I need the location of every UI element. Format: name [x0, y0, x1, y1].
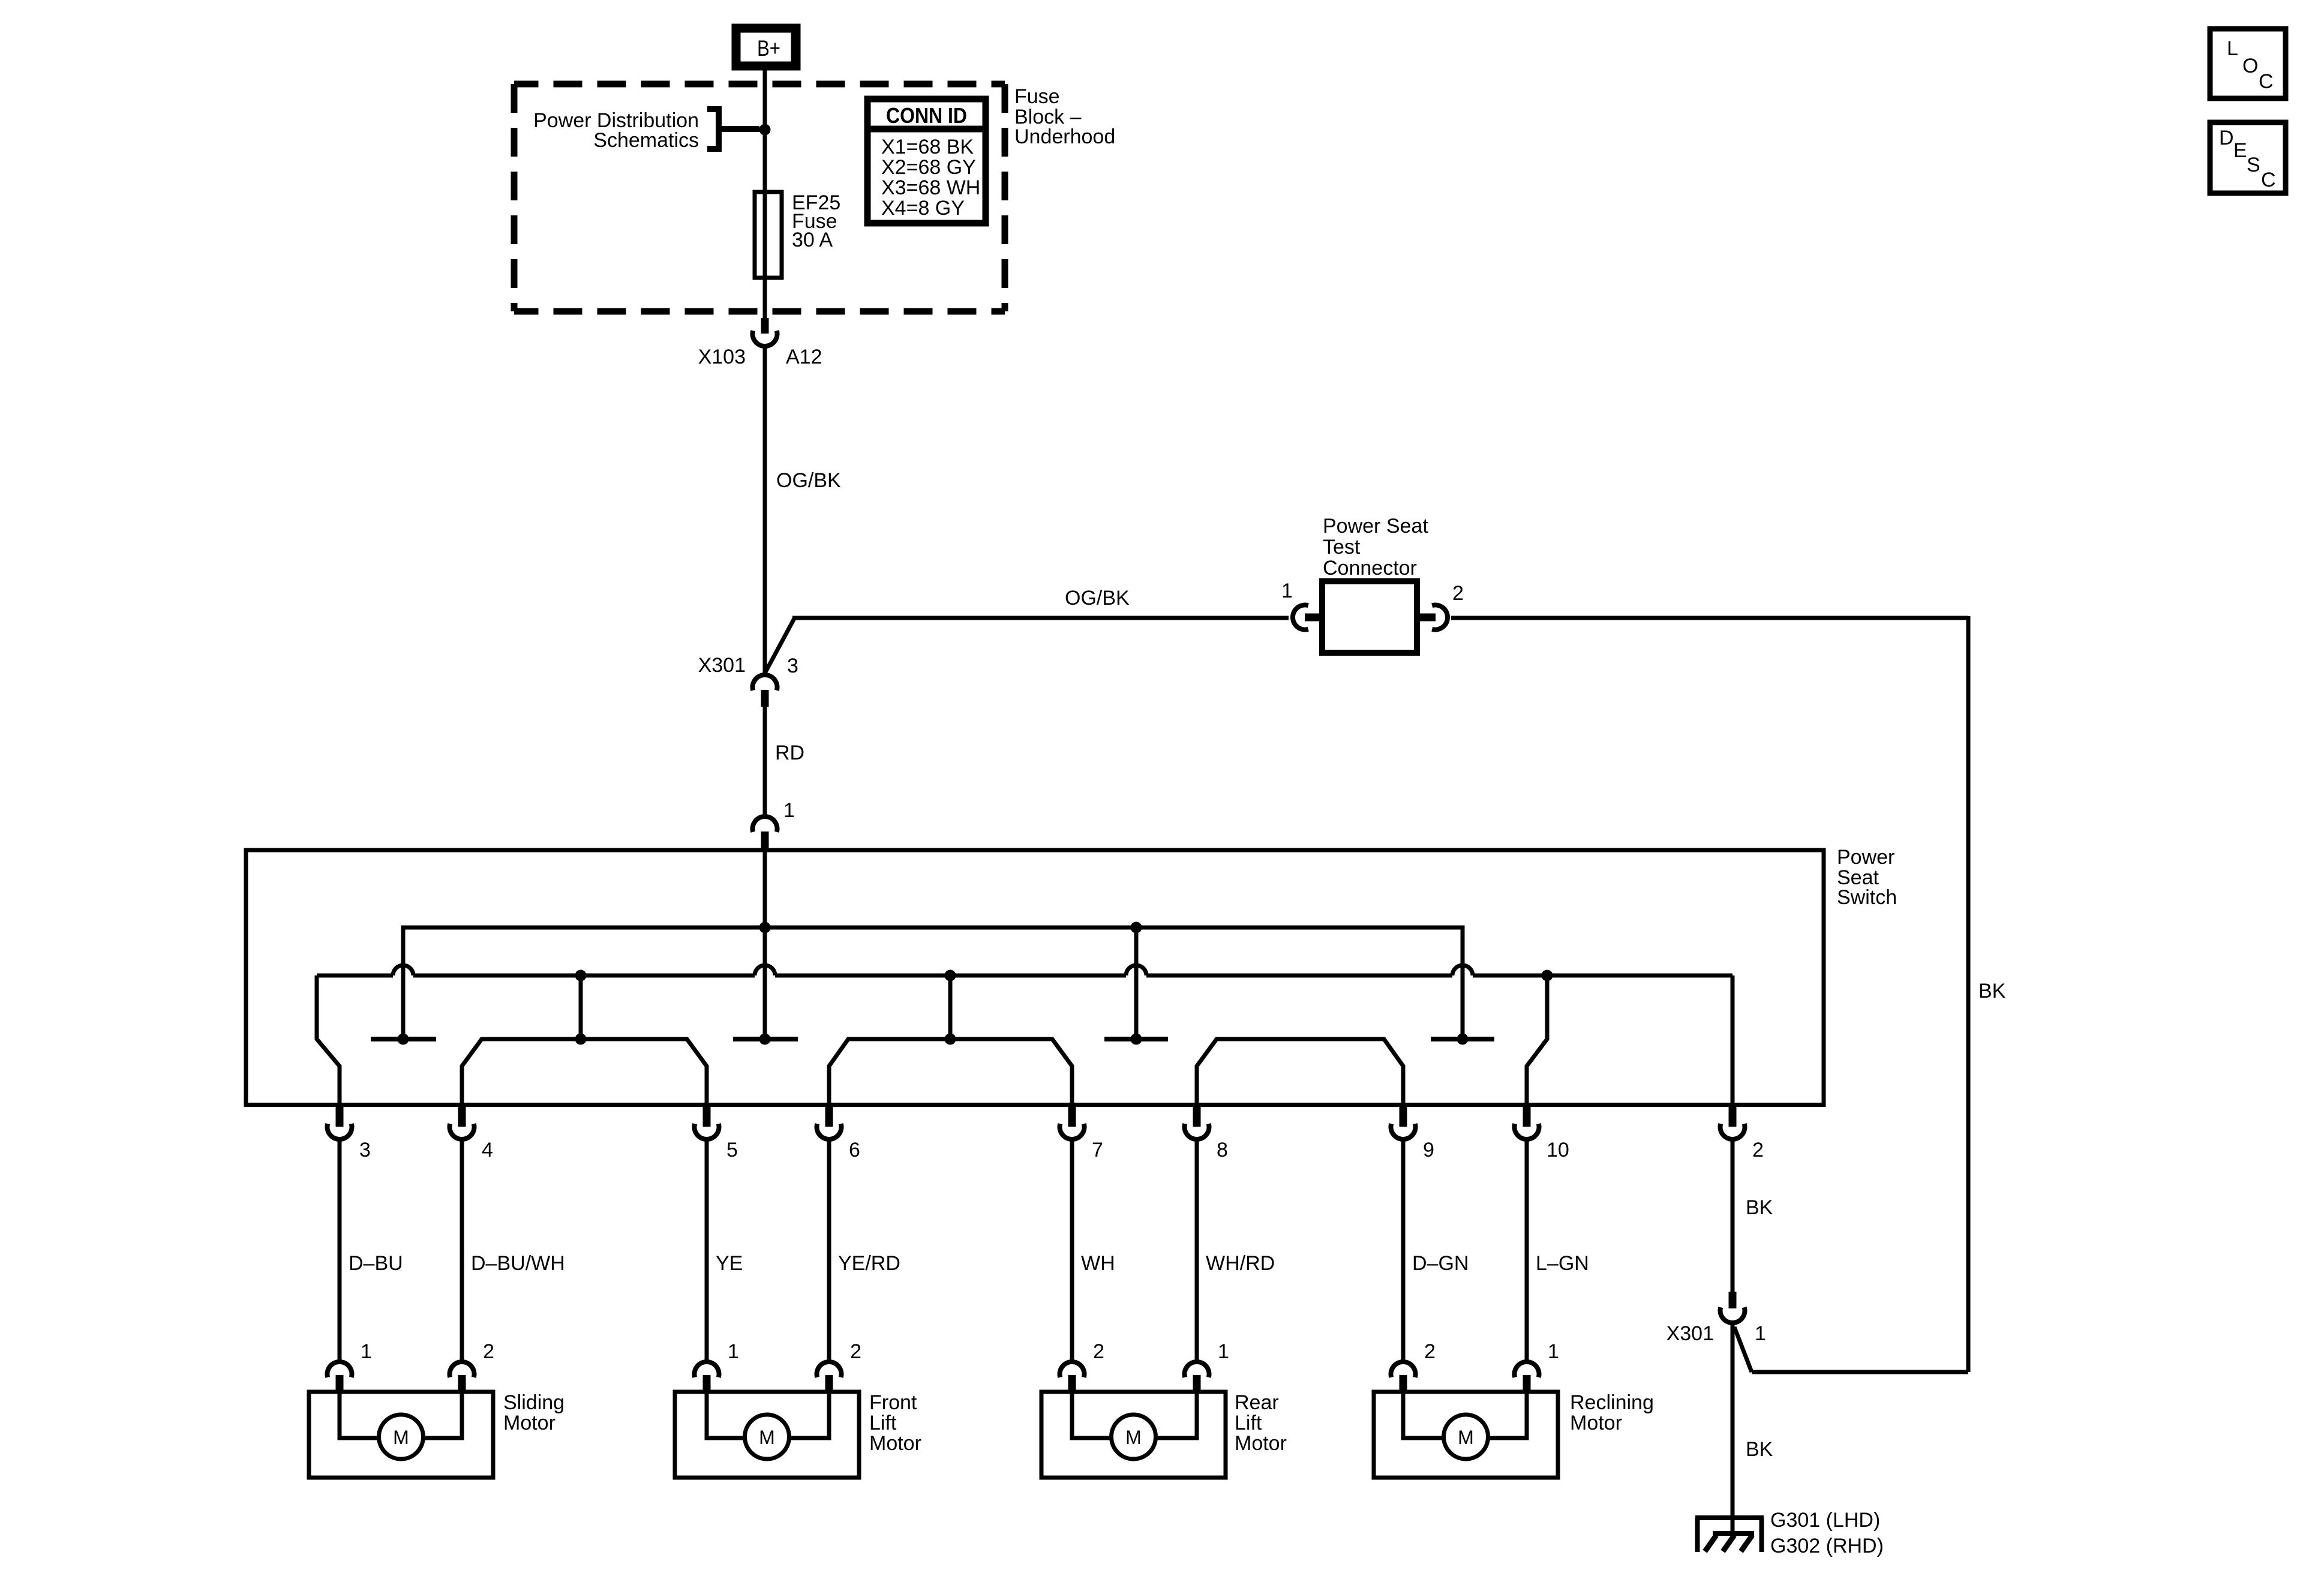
label Motor [869, 1432, 921, 1455]
svg-text:BK: BK [1746, 1438, 1773, 1461]
contact T4 bar [1431, 1034, 1494, 1045]
svg-text:8: 8 [1217, 1139, 1228, 1161]
motor internal wires [1403, 1394, 1527, 1438]
svg-text:1: 1 [1218, 1340, 1229, 1363]
connector switch pin 9 [1391, 1104, 1416, 1139]
label Motor [1570, 1412, 1622, 1434]
svg-text:1: 1 [1548, 1340, 1559, 1363]
label motor pin 1 [1218, 1340, 1229, 1363]
motor symbol M [1444, 1415, 1488, 1459]
junction dot bus B x W1 riser [575, 970, 587, 981]
svg-text:3: 3 [787, 655, 798, 677]
label OG/BK vertical wire [776, 469, 841, 492]
motor box [1374, 1392, 1558, 1478]
connector X301 pin 1 [1721, 1292, 1745, 1323]
fuse block dashed outline (Fuse Block - Underhood) [514, 84, 1005, 311]
svg-text:Power: Power [1837, 846, 1894, 869]
label switch pin 8 [1217, 1139, 1228, 1161]
bus A horizontal (fixed contact bus) [403, 926, 1463, 1040]
connector switch pin 1 (dome) [753, 816, 777, 851]
wire D–GN from switch to motor [1401, 1139, 1406, 1362]
svg-text:D: D [2219, 127, 2234, 149]
label A12 [786, 346, 822, 368]
svg-text:D–BU/WH: D–BU/WH [471, 1252, 565, 1275]
wire WH from switch to motor [1070, 1139, 1074, 1362]
wire BK switch pin 2 down [1731, 1139, 1735, 1293]
label CONN ID [886, 103, 967, 128]
label Rear [1235, 1391, 1279, 1414]
motor internal wires [1072, 1394, 1197, 1438]
svg-text:OG/BK: OG/BK [1065, 587, 1130, 610]
svg-text:Test: Test [1323, 536, 1361, 559]
wire WH/RD from switch to motor [1195, 1139, 1199, 1362]
label X3=68 WH [881, 176, 980, 199]
svg-text:YE/RD: YE/RD [838, 1252, 900, 1275]
wire BK X301 to ground [1731, 1322, 1735, 1532]
label switch pin 5 [726, 1139, 738, 1161]
svg-text:C: C [2259, 70, 2274, 93]
wire BK from test connector pin 2 to right side [1451, 616, 1968, 620]
svg-text:1: 1 [728, 1340, 739, 1363]
svg-text:3: 3 [359, 1139, 371, 1161]
svg-text:2: 2 [1424, 1340, 1436, 1363]
wire BK right vertical [1966, 616, 1971, 1372]
connector switch pin 5 [695, 1104, 719, 1139]
label motor pin 2 [1093, 1340, 1104, 1363]
connector motor pin 2 (dome) [450, 1362, 475, 1394]
label G301 (LHD) [1770, 1509, 1880, 1532]
svg-text:Motor: Motor [1570, 1412, 1622, 1434]
svg-text:E: E [2233, 139, 2247, 162]
svg-text:Front: Front [869, 1391, 917, 1414]
svg-text:Motor: Motor [503, 1412, 556, 1434]
label OG/BK horizontal wire [1065, 587, 1130, 610]
label pin 3 X301 [787, 655, 798, 677]
svg-text:D–BU: D–BU [349, 1252, 403, 1275]
svg-text:Fuse: Fuse [1014, 85, 1060, 108]
svg-text:C: C [2261, 169, 2276, 191]
label switch pin 10 [1547, 1139, 1569, 1161]
svg-text:B+: B+ [757, 36, 780, 61]
svg-text:2: 2 [1752, 1139, 1764, 1161]
label Fuse Block - Underhood [1014, 85, 1115, 148]
svg-text:X4=8 GY: X4=8 GY [881, 197, 965, 220]
label motor pin 1 [1548, 1340, 1559, 1363]
label switch pin 1 [783, 799, 795, 822]
motor box [675, 1392, 859, 1478]
label G302 (RHD) [1770, 1535, 1884, 1557]
connector test pin 1 (cup) [1293, 605, 1323, 630]
wire B+ to fuse (inside fuse block) [763, 70, 767, 319]
svg-text:6: 6 [849, 1139, 860, 1161]
label switch pin 9 [1423, 1139, 1434, 1161]
connector switch pin 4 [450, 1104, 475, 1139]
motor symbol M [745, 1415, 789, 1459]
label X4=8 GY [881, 197, 965, 220]
label WH/RD [1206, 1252, 1275, 1275]
svg-text:Underhood: Underhood [1014, 125, 1115, 148]
svg-text:WH/RD: WH/RD [1206, 1252, 1275, 1275]
label BK pin2 wire [1746, 1196, 1773, 1219]
fuse EF25 30A [755, 192, 782, 278]
label X103 [698, 346, 746, 368]
svg-text:M: M [759, 1427, 775, 1448]
svg-text:Rear: Rear [1235, 1391, 1279, 1414]
svg-text:M: M [393, 1427, 409, 1448]
label Power Seat Switch [1837, 846, 1897, 909]
connector motor pin 2 (dome) [1060, 1362, 1085, 1394]
bus B horizontal (wiper common bus) [317, 965, 1733, 975]
svg-text:BK: BK [1746, 1196, 1773, 1219]
label D–GN [1412, 1252, 1469, 1275]
junction dot bus A x T3 riser [1131, 922, 1142, 933]
label Motor [503, 1412, 556, 1434]
wiper bar W1 (pins 4-5) [462, 975, 707, 1107]
label YE [716, 1252, 743, 1275]
svg-text:S: S [2247, 154, 2260, 176]
junction dot feed x bus A [759, 922, 771, 933]
junction dot power distribution tap [759, 124, 771, 136]
label X301 bottom [1667, 1322, 1714, 1345]
label Power Seat Test Connector [1323, 515, 1428, 580]
junction dot bus B x pin10 wiper [1542, 970, 1553, 981]
label switch pin 2 [1752, 1139, 1764, 1161]
contact T1 bar [371, 1034, 436, 1045]
svg-text:X3=68 WH: X3=68 WH [881, 176, 980, 199]
label switch pin 6 [849, 1139, 860, 1161]
label D–BU [349, 1252, 403, 1275]
label Motor [1235, 1432, 1287, 1455]
svg-text:7: 7 [1092, 1139, 1103, 1161]
junction dot bus B x W2 riser [945, 970, 956, 981]
label switch pin 7 [1092, 1139, 1103, 1161]
svg-text:WH: WH [1081, 1252, 1115, 1275]
connector switch pin 6 [816, 1104, 841, 1139]
motor internal wires [340, 1394, 462, 1438]
connector motor pin 1 (dome) [695, 1362, 719, 1394]
connector switch pin 10 [1514, 1104, 1539, 1139]
connector switch pin 8 [1185, 1104, 1209, 1139]
bus A riser to T3 [1134, 927, 1139, 1039]
svg-text:Motor: Motor [869, 1432, 921, 1455]
svg-text:YE: YE [716, 1252, 743, 1275]
svg-text:4: 4 [482, 1139, 493, 1161]
label pin 1 X301 [1755, 1322, 1766, 1345]
label Lift [1235, 1412, 1262, 1434]
svg-text:Schematics: Schematics [593, 129, 699, 152]
label motor pin 1 [361, 1340, 372, 1363]
connector switch pin 2 [1721, 1104, 1745, 1139]
svg-text:L–GN: L–GN [1536, 1252, 1589, 1275]
svg-text:L: L [2227, 37, 2238, 60]
wiper pin 3 (from bus B left end) [317, 975, 340, 1107]
bracket from Power Distribution Schematics to node [707, 109, 759, 149]
wire branch diagonal to test connector [765, 619, 794, 673]
svg-text:M: M [1125, 1427, 1142, 1448]
wiper bar W3 (pins 8-9) [1197, 1039, 1403, 1107]
wire D–BU from switch to motor [338, 1139, 342, 1362]
wire L–GN from switch to motor [1525, 1139, 1529, 1362]
connector X103 pin A12 [753, 318, 777, 346]
label YE/RD [838, 1252, 900, 1275]
wire YE/RD from switch to motor [827, 1139, 831, 1362]
svg-text:D–GN: D–GN [1412, 1252, 1469, 1275]
svg-text:Connector: Connector [1323, 557, 1417, 580]
label Power Distribution Schematics [533, 109, 699, 152]
svg-text:2: 2 [1093, 1340, 1104, 1363]
label Sliding [503, 1391, 565, 1414]
label switch pin 4 [482, 1139, 493, 1161]
connector motor pin 1 (dome) [1185, 1362, 1209, 1394]
connector motor pin 1 (dome) [1514, 1362, 1539, 1394]
svg-text:Sliding: Sliding [503, 1391, 565, 1414]
wire D–BU/WH from switch to motor [460, 1139, 464, 1362]
label X1=68 BK [881, 136, 974, 158]
motor symbol M [379, 1415, 424, 1459]
svg-text:1: 1 [783, 799, 795, 822]
svg-text:10: 10 [1547, 1139, 1569, 1161]
power seat test connector box [1322, 581, 1417, 653]
label motor pin 2 [483, 1340, 494, 1363]
svg-text:Motor: Motor [1235, 1432, 1287, 1455]
label motor pin 2 [1424, 1340, 1436, 1363]
connector motor pin 1 (dome) [327, 1362, 352, 1394]
svg-text:2: 2 [483, 1340, 494, 1363]
svg-text:1: 1 [1281, 580, 1293, 602]
label Reclining [1570, 1391, 1654, 1414]
switch feed wire (pin 1 to contact T2) [763, 850, 767, 1039]
label X2=68 GY [881, 156, 976, 179]
label BK ground wire [1746, 1438, 1773, 1461]
connector switch pin 3 [327, 1104, 352, 1139]
label Lift [869, 1412, 897, 1434]
wiper pin 10 (from bus B) [1527, 975, 1547, 1107]
label motor pin 1 [728, 1340, 739, 1363]
contact T3 bar [1104, 1034, 1168, 1045]
connector test pin 2 (cup) [1418, 605, 1448, 630]
svg-text:X1=68 BK: X1=68 BK [881, 136, 974, 158]
svg-text:2: 2 [850, 1340, 861, 1363]
DESC reference box [2210, 122, 2286, 193]
motor symbol M [1112, 1415, 1156, 1459]
svg-text:1: 1 [1755, 1322, 1766, 1345]
svg-text:Power Seat: Power Seat [1323, 515, 1428, 538]
power seat switch box [246, 850, 1824, 1105]
svg-text:G302 (RHD): G302 (RHD) [1770, 1535, 1884, 1557]
svg-text:X301: X301 [1667, 1322, 1714, 1345]
svg-text:OG/BK: OG/BK [776, 469, 841, 492]
connector switch pin 7 [1060, 1104, 1085, 1139]
svg-text:Reclining: Reclining [1570, 1391, 1654, 1414]
label motor pin 2 [850, 1340, 861, 1363]
label switch pin 3 [359, 1139, 371, 1161]
LOC reference box [2210, 29, 2286, 98]
motor box [309, 1392, 493, 1478]
svg-text:O: O [2242, 55, 2258, 77]
ground symbol G301/G302 [1695, 1518, 1764, 1552]
svg-text:BK: BK [1978, 980, 2006, 1002]
wire OG/BK horizontal to test connector [792, 616, 1289, 620]
svg-text:X2=68 GY: X2=68 GY [881, 156, 976, 179]
label L–GN [1536, 1252, 1589, 1275]
wire bus B right end to pin 2 [1731, 975, 1735, 1107]
svg-text:Switch: Switch [1837, 886, 1897, 909]
label pin 1 test connector [1281, 580, 1293, 602]
CONN ID table box [867, 99, 986, 223]
connector motor pin 2 (dome) [1391, 1362, 1416, 1394]
label EF25 Fuse 30 A [792, 191, 840, 251]
wire from BK loop into X301 pin 1 [1734, 1327, 1968, 1372]
label BK right wire [1978, 980, 2006, 1002]
svg-text:X103: X103 [698, 346, 746, 368]
svg-text:30 A: 30 A [792, 229, 833, 251]
svg-text:RD: RD [775, 742, 804, 764]
connector motor pin 2 (dome) [816, 1362, 841, 1394]
wire RD X301 to switch pin 1 [763, 706, 767, 815]
label RD [775, 742, 804, 764]
wiper bar W2 (pins 6-7) [829, 975, 1072, 1107]
wire OG/BK from X103 to X301 [763, 345, 767, 673]
label WH [1081, 1252, 1115, 1275]
svg-text:5: 5 [726, 1139, 738, 1161]
wire YE from switch to motor [705, 1139, 709, 1362]
svg-text:Lift: Lift [869, 1412, 897, 1434]
svg-text:X301: X301 [698, 654, 746, 677]
power terminal B+ [732, 24, 800, 70]
svg-text:CONN ID: CONN ID [886, 103, 967, 128]
svg-text:9: 9 [1423, 1139, 1434, 1161]
svg-text:A12: A12 [786, 346, 822, 368]
connector X301 pin 3 (dome) [753, 675, 777, 707]
svg-text:G301 (LHD): G301 (LHD) [1770, 1509, 1880, 1532]
label D–BU/WH [471, 1252, 565, 1275]
contact T2 bar [733, 1034, 798, 1045]
motor box [1041, 1392, 1226, 1478]
svg-text:2: 2 [1452, 582, 1464, 605]
motor internal wires [707, 1394, 829, 1438]
svg-text:M: M [1458, 1427, 1474, 1448]
svg-text:Lift: Lift [1235, 1412, 1262, 1434]
label X301 top [698, 654, 746, 677]
label pin 2 test connector [1452, 582, 1464, 605]
label Front [869, 1391, 917, 1414]
svg-text:1: 1 [361, 1340, 372, 1363]
